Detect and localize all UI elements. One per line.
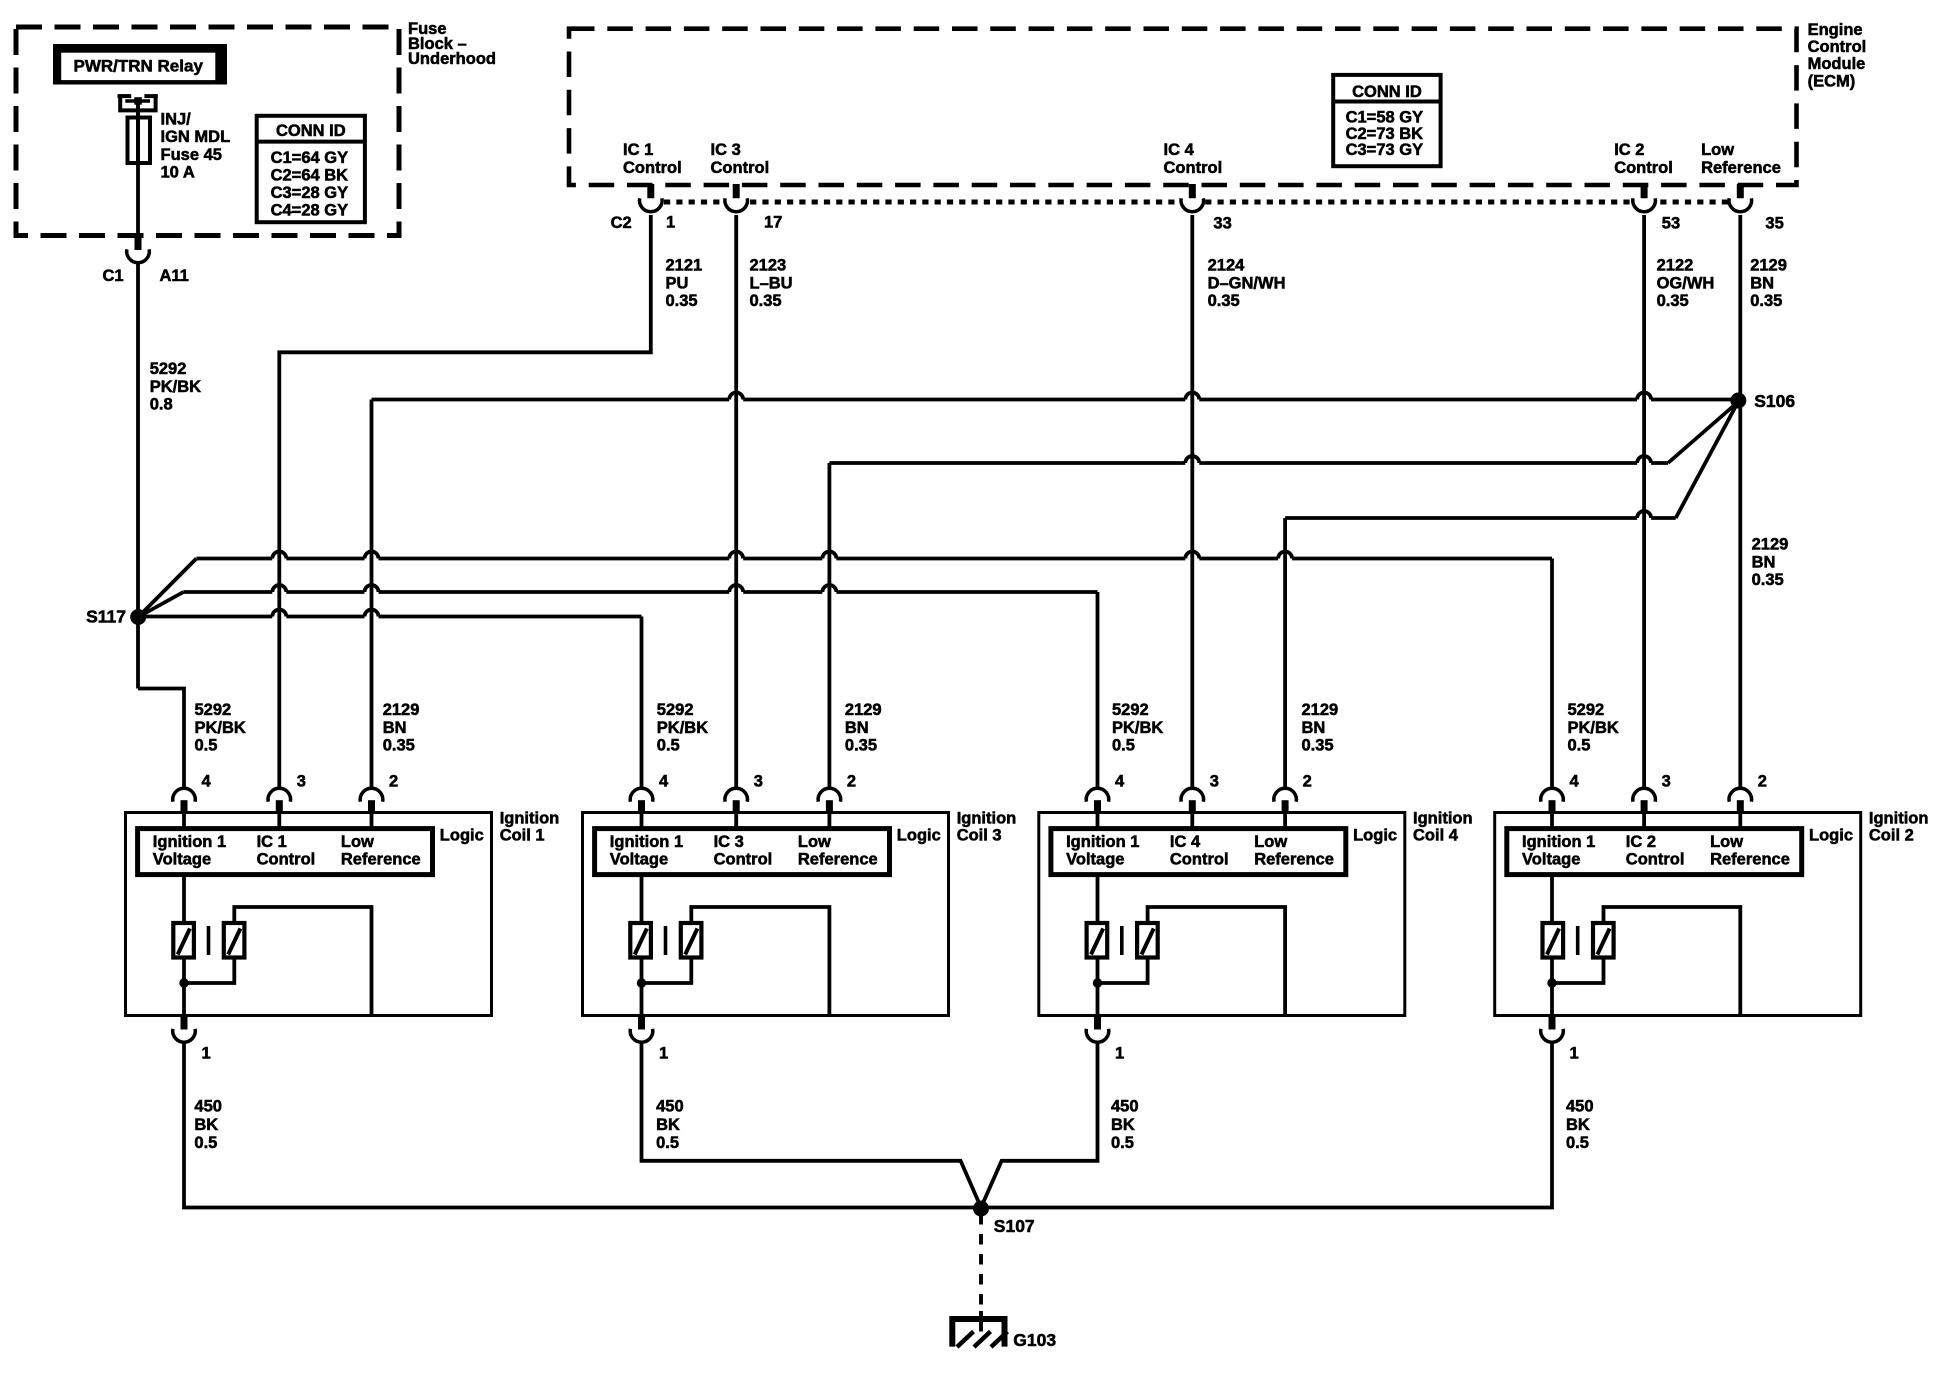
svg-text:C4=28 GY: C4=28 GY (271, 202, 349, 220)
internal wire: secondary winding top to case bottom (1604, 907, 1741, 1016)
svg-text:C1=64 GY: C1=64 GY (271, 149, 349, 167)
svg-text:5292: 5292 (150, 360, 187, 378)
svg-text:Voltage: Voltage (1522, 850, 1580, 868)
core bar (1120, 926, 1124, 955)
svg-text:Voltage: Voltage (1066, 850, 1124, 868)
internal wire: logic to primary winding (1096, 876, 1100, 923)
svg-text:17: 17 (764, 214, 782, 232)
svg-text:D–GN/WH: D–GN/WH (1208, 274, 1286, 292)
svg-text:Logic: Logic (897, 827, 941, 845)
internal wire: secondary winding top to case bottom (234, 907, 371, 1016)
coil 1 pin 1 connector (181, 1015, 188, 1030)
svg-text:PK/BK: PK/BK (1112, 719, 1163, 737)
internal junction dot (179, 978, 188, 987)
svg-text:BN: BN (845, 719, 869, 737)
svg-text:Reference: Reference (1254, 850, 1334, 868)
svg-text:0.35: 0.35 (845, 737, 877, 755)
coil 2 pin 2 connector (1729, 788, 1752, 801)
wire 2129 BN: coil3 pin2 to S106 (828, 463, 832, 787)
wire 2129 BN: coil1 pin2 to S106 (370, 400, 374, 788)
wire 450 BK: coil3 pin1 to S107 (642, 1043, 982, 1208)
svg-text:Control: Control (711, 159, 770, 177)
internal wire: secondary winding top to case bottom (691, 907, 829, 1016)
svg-text:BK: BK (656, 1116, 680, 1134)
svg-text:450: 450 (656, 1098, 684, 1116)
coil 2 terminal header (1507, 829, 1802, 875)
svg-text:Voltage: Voltage (153, 850, 211, 868)
svg-text:Low: Low (798, 833, 831, 851)
svg-text:2: 2 (847, 773, 856, 791)
connector C1 pin A11 (135, 235, 142, 250)
svg-text:INJ/: INJ/ (161, 111, 192, 129)
coil 4 terminal header (1051, 829, 1346, 875)
core bar (207, 926, 211, 955)
svg-text:450: 450 (194, 1098, 222, 1116)
svg-text:5292: 5292 (1112, 701, 1149, 719)
svg-text:1: 1 (202, 1045, 211, 1063)
svg-text:0.35: 0.35 (750, 292, 782, 310)
svg-text:1: 1 (1570, 1045, 1579, 1063)
svg-text:33: 33 (1213, 215, 1231, 233)
svg-text:Control: Control (1808, 38, 1867, 56)
wire 5292 PK/BK: S117 to coil4 pin4 (138, 592, 183, 617)
svg-text:3: 3 (754, 773, 763, 791)
secondary winding (1593, 923, 1614, 958)
internal wire: pin3 into logic header (1642, 813, 1646, 829)
coil 4 pin 3 connector (1181, 788, 1204, 801)
svg-text:0.35: 0.35 (1657, 292, 1689, 310)
internal wire: logic to primary winding (182, 876, 186, 923)
svg-text:Low: Low (341, 833, 374, 851)
ECM connector pin 35 (1737, 184, 1744, 199)
svg-text:L–BU: L–BU (750, 274, 793, 292)
internal wire: pin4 into logic header (640, 813, 644, 829)
svg-text:4: 4 (659, 773, 669, 791)
svg-text:0.35: 0.35 (1752, 571, 1784, 589)
ECM connector face dotted line (664, 200, 1754, 205)
internal wire: pin2 into logic header (1738, 813, 1742, 829)
coil 2 case (1495, 813, 1861, 1016)
svg-text:Logic: Logic (440, 827, 484, 845)
secondary winding (681, 923, 702, 958)
wire 2121 PU: ECM pin1 to coil1 pin3 (279, 215, 651, 787)
internal wire: logic to primary winding (1550, 876, 1554, 923)
svg-text:2124: 2124 (1208, 257, 1246, 275)
wire 2129 BN: coil4 pin2 to S106 (1283, 518, 1287, 787)
internal wire: junction to secondary winding (184, 958, 234, 984)
svg-text:Low: Low (1710, 833, 1743, 851)
svg-text:1: 1 (666, 214, 675, 232)
svg-text:IC 2: IC 2 (1626, 833, 1656, 851)
svg-text:BN: BN (1752, 553, 1776, 571)
svg-text:3: 3 (1210, 773, 1219, 791)
svg-text:4: 4 (1570, 773, 1580, 791)
internal wire: pin2 into logic header (370, 813, 374, 829)
svg-text:4: 4 (202, 773, 212, 791)
internal wire: pin3 into logic header (734, 813, 738, 829)
svg-text:0.35: 0.35 (666, 292, 698, 310)
svg-text:BN: BN (1302, 719, 1326, 737)
svg-text:0.35: 0.35 (1302, 737, 1334, 755)
svg-text:0.5: 0.5 (1566, 1134, 1589, 1152)
coil 1 case (126, 813, 492, 1016)
svg-text:BK: BK (194, 1116, 218, 1134)
svg-text:Control: Control (1170, 850, 1229, 868)
svg-text:S107: S107 (994, 1216, 1035, 1236)
svg-text:C3=28 GY: C3=28 GY (271, 184, 349, 202)
ground G103 symbol (952, 1319, 1004, 1347)
svg-text:35: 35 (1765, 215, 1783, 233)
svg-text:2129: 2129 (845, 701, 882, 719)
wire 2129 BN: ECM pin35 through S106 to coil2 pin2 (1738, 215, 1742, 787)
svg-text:IC 4: IC 4 (1164, 141, 1195, 159)
internal wire: primary winding to pin1 (640, 958, 644, 1016)
wire 5292 PK/BK: S117 to coil2 pin4 (138, 559, 196, 618)
ECM connector pin 17 (733, 184, 740, 199)
svg-text:Reference: Reference (1710, 850, 1790, 868)
svg-text:PK/BK: PK/BK (657, 719, 708, 737)
svg-text:0.35: 0.35 (1750, 292, 1782, 310)
svg-text:1: 1 (1115, 1045, 1124, 1063)
coil 1 pin 3 connector (268, 788, 291, 801)
svg-text:IC 3: IC 3 (714, 833, 744, 851)
svg-text:Ignition: Ignition (1413, 810, 1473, 828)
svg-text:Control: Control (623, 159, 682, 177)
svg-text:2121: 2121 (666, 257, 703, 275)
internal wire: pin3 into logic header (1190, 813, 1194, 829)
svg-text:OG/WH: OG/WH (1657, 274, 1715, 292)
svg-text:PU: PU (666, 274, 689, 292)
svg-text:0.5: 0.5 (657, 737, 680, 755)
internal junction dot (1547, 978, 1556, 987)
svg-text:Control: Control (257, 850, 316, 868)
coil 4 pin 2 connector (1274, 788, 1297, 801)
svg-text:S106: S106 (1754, 391, 1795, 411)
svg-text:BK: BK (1566, 1116, 1590, 1134)
svg-text:Low: Low (1254, 833, 1287, 851)
splice S106 (1730, 393, 1746, 409)
coil 3 terminal header (595, 829, 890, 875)
svg-text:0.5: 0.5 (1568, 737, 1591, 755)
svg-text:CONN ID: CONN ID (1352, 83, 1422, 101)
svg-text:Control: Control (714, 850, 773, 868)
internal wire: pin2 into logic header (828, 813, 832, 829)
relay contact symbol (120, 94, 155, 110)
primary winding (173, 923, 194, 958)
internal wire: logic to primary winding (640, 876, 644, 923)
svg-text:Ignition 1: Ignition 1 (1066, 833, 1139, 851)
wire 2122 OG/WH: ECM pin53 to coil2 pin3 (1642, 215, 1646, 787)
svg-text:4: 4 (1115, 773, 1125, 791)
svg-text:S117: S117 (86, 607, 126, 627)
svg-text:Control: Control (1164, 159, 1223, 177)
svg-text:IC 3: IC 3 (711, 141, 741, 159)
svg-text:2123: 2123 (750, 257, 787, 275)
wire: fuse output (136, 163, 140, 236)
svg-text:Logic: Logic (1353, 827, 1397, 845)
coil 1 pin 4 connector (173, 788, 196, 801)
svg-text:0.5: 0.5 (194, 1134, 217, 1152)
svg-text:A11: A11 (160, 267, 189, 285)
svg-text:Engine: Engine (1808, 21, 1863, 39)
coil 1 terminal header (138, 829, 433, 875)
internal wire: secondary winding top to case bottom (1148, 907, 1286, 1016)
internal wire: pin3 into logic header (277, 813, 281, 829)
ECM connector pin 53 (1641, 184, 1648, 199)
svg-text:3: 3 (297, 773, 306, 791)
core bar (1576, 926, 1580, 955)
coil 3 pin 2 connector (818, 788, 841, 801)
svg-text:0.5: 0.5 (195, 737, 218, 755)
relay PWR/TRN Relay box (53, 44, 227, 85)
svg-text:1: 1 (659, 1045, 668, 1063)
coil 4 pin 4 connector (1086, 788, 1109, 801)
svg-text:2129: 2129 (1302, 701, 1339, 719)
internal junction dot (637, 978, 646, 987)
svg-text:(ECM): (ECM) (1808, 72, 1856, 90)
svg-text:BN: BN (383, 719, 407, 737)
svg-text:C2: C2 (611, 214, 632, 232)
primary winding (1087, 923, 1108, 958)
ECM connector pin 1 (647, 184, 654, 199)
svg-text:5292: 5292 (195, 701, 232, 719)
wire 450 BK: coil1 & coil2 pin1 ground bus (184, 1043, 1552, 1208)
fuse INJ/IGN MDL Fuse 45 10A (128, 118, 151, 164)
svg-text:2129: 2129 (1752, 536, 1789, 554)
svg-text:0.5: 0.5 (1111, 1134, 1134, 1152)
svg-text:Ignition 1: Ignition 1 (610, 833, 683, 851)
internal wire: primary winding to pin1 (1550, 958, 1554, 1016)
engine control module dashed enclosure (569, 29, 1797, 185)
internal wire: pin4 into logic header (182, 813, 186, 829)
svg-text:2: 2 (389, 773, 398, 791)
svg-text:2: 2 (1303, 773, 1312, 791)
coil 4 pin 1 connector (1094, 1015, 1101, 1030)
svg-text:C1: C1 (103, 267, 124, 285)
coil 4 case (1039, 813, 1405, 1016)
coil 3 case (583, 813, 949, 1016)
svg-text:PK/BK: PK/BK (195, 719, 246, 737)
svg-text:0.35: 0.35 (383, 737, 415, 755)
svg-text:C2=64 BK: C2=64 BK (271, 167, 349, 185)
wire 5292 PK/BK: S117 to coil3 pin4 (138, 615, 272, 619)
svg-text:Low: Low (1701, 141, 1734, 159)
svg-text:Fuse 45: Fuse 45 (161, 146, 222, 164)
primary winding (1543, 923, 1564, 958)
svg-text:IC 1: IC 1 (257, 833, 287, 851)
core bar (664, 926, 668, 955)
svg-text:Ignition: Ignition (1869, 810, 1929, 828)
svg-text:Ignition 1: Ignition 1 (153, 833, 226, 851)
svg-text:Reference: Reference (341, 850, 421, 868)
svg-text:53: 53 (1662, 215, 1680, 233)
svg-text:0.5: 0.5 (656, 1134, 679, 1152)
svg-text:IC 2: IC 2 (1614, 141, 1644, 159)
svg-text:2129: 2129 (1750, 257, 1787, 275)
svg-text:2129: 2129 (383, 701, 420, 719)
internal wire: pin4 into logic header (1550, 813, 1554, 829)
internal junction dot (1093, 978, 1102, 987)
svg-text:Coil 2: Coil 2 (1869, 826, 1914, 844)
splice S107 (973, 1201, 989, 1217)
svg-text:450: 450 (1111, 1098, 1139, 1116)
svg-text:Module: Module (1808, 55, 1866, 73)
svg-text:2122: 2122 (1657, 257, 1694, 275)
svg-text:G103: G103 (1013, 1330, 1056, 1350)
svg-text:IC 4: IC 4 (1170, 833, 1201, 851)
coil 3 pin 1 connector (638, 1015, 645, 1030)
svg-text:0.5: 0.5 (1112, 737, 1135, 755)
svg-text:10 A: 10 A (161, 163, 195, 181)
internal wire: primary winding to pin1 (1096, 958, 1100, 1016)
internal wire: primary winding to pin1 (182, 958, 186, 1016)
svg-text:C3=73 GY: C3=73 GY (1346, 141, 1424, 159)
ECM CONN ID table (1333, 75, 1440, 166)
svg-text:BN: BN (1750, 274, 1774, 292)
svg-text:PWR/TRN Relay: PWR/TRN Relay (73, 57, 203, 76)
coil 2 pin 3 connector (1633, 788, 1656, 801)
svg-text:Ignition: Ignition (957, 810, 1017, 828)
svg-text:BK: BK (1111, 1116, 1135, 1134)
internal wire: pin2 into logic header (1283, 813, 1287, 829)
coil 3 pin 3 connector (725, 788, 748, 801)
internal wire: junction to secondary winding (642, 958, 692, 984)
svg-text:IGN MDL: IGN MDL (161, 128, 231, 146)
wire 5292 feed: C1 down through S117 (136, 263, 140, 688)
svg-text:0.8: 0.8 (150, 396, 173, 414)
internal wire: junction to secondary winding (1098, 958, 1148, 984)
wire 5292 branch to coil1 pin4 (138, 689, 184, 788)
internal wire: junction to secondary winding (1552, 958, 1604, 984)
svg-text:PK/BK: PK/BK (1568, 719, 1619, 737)
svg-text:Reference: Reference (798, 850, 878, 868)
svg-text:3: 3 (1662, 773, 1671, 791)
dashed ground lead S107 to G103 (979, 1214, 983, 1313)
coil 1 pin 2 connector (360, 788, 383, 801)
wire 2123 L-BU: ECM pin17 to coil3 pin3 (734, 215, 738, 787)
internal wire: pin4 into logic header (1096, 813, 1100, 829)
coil 2 pin 4 connector (1541, 788, 1564, 801)
svg-text:Underhood: Underhood (408, 50, 496, 68)
primary winding (630, 923, 651, 958)
secondary winding (224, 923, 245, 958)
splice S117 (130, 609, 146, 625)
svg-text:IC 1: IC 1 (623, 141, 653, 159)
svg-text:Voltage: Voltage (610, 850, 668, 868)
svg-text:Ignition 1: Ignition 1 (1522, 833, 1595, 851)
svg-text:Control: Control (1614, 159, 1673, 177)
svg-text:PK/BK: PK/BK (150, 378, 201, 396)
svg-text:Logic: Logic (1809, 827, 1853, 845)
coil 3 pin 4 connector (630, 788, 653, 801)
secondary winding (1137, 923, 1158, 958)
svg-text:Coil 4: Coil 4 (1413, 826, 1459, 844)
svg-text:0.35: 0.35 (1208, 292, 1240, 310)
svg-text:5292: 5292 (1568, 701, 1605, 719)
svg-text:450: 450 (1566, 1098, 1594, 1116)
svg-text:CONN ID: CONN ID (276, 122, 346, 140)
fuse block - underhood dashed enclosure (16, 27, 399, 236)
ECM connector pin 33 (1189, 184, 1196, 199)
coil 2 pin 1 connector (1549, 1015, 1556, 1030)
wire 2124 D-GN/WH: ECM pin33 to coil4 pin3 (1190, 215, 1194, 787)
svg-text:2: 2 (1758, 773, 1767, 791)
svg-text:Ignition: Ignition (500, 810, 560, 828)
svg-text:Coil 3: Coil 3 (957, 826, 1002, 844)
wire 450 BK: coil4 pin1 to S107 (981, 1043, 1098, 1208)
svg-text:Coil 1: Coil 1 (500, 826, 545, 844)
svg-text:5292: 5292 (657, 701, 694, 719)
fuse block CONN ID table (257, 116, 365, 222)
svg-text:Control: Control (1626, 850, 1685, 868)
svg-text:Reference: Reference (1701, 159, 1781, 177)
